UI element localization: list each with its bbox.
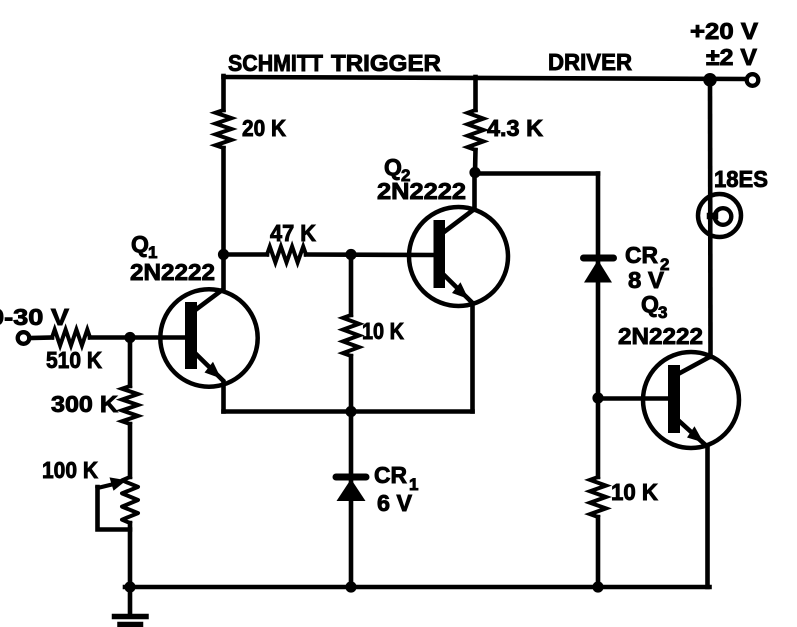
- label 10 K: [362, 318, 404, 344]
- wire bottom ground rail: [125, 585, 710, 590]
- node ground rail left junction: [124, 581, 135, 592]
- svg-text:Q: Q: [641, 291, 659, 317]
- potentiometer wiper arrow: [98, 477, 127, 490]
- ground symbol: [115, 587, 147, 625]
- svg-text:+20 V: +20 V: [690, 18, 759, 44]
- label 100 K: [42, 457, 98, 483]
- transistor Q2 circle: [409, 207, 508, 306]
- svg-text:Q: Q: [131, 231, 149, 257]
- resistor 47K: [267, 247, 306, 263]
- resistor 300K: [122, 386, 138, 424]
- label 18ES: [714, 166, 768, 192]
- label Q3 2N2222: [618, 323, 703, 349]
- svg-text:8 V: 8 V: [628, 267, 665, 293]
- wire emitter rail Q1 to Q2: [224, 409, 473, 414]
- svg-text:20 K: 20 K: [242, 115, 286, 141]
- label ±2V: [706, 44, 758, 70]
- wire 4.3K to Q2 collector node: [473, 150, 478, 174]
- svg-text:18ES: 18ES: [714, 166, 768, 192]
- transistor Q1 collector lead: [196, 255, 224, 310]
- wire 100K to ground rail: [128, 523, 133, 587]
- label Q3: [641, 291, 667, 322]
- terminal input 0-30V: [18, 332, 30, 344]
- wire wiper loop: [98, 487, 131, 530]
- wire 510K to Q1 base: [90, 335, 185, 340]
- transistor Q3 collector lead: [679, 357, 711, 374]
- wire junction to 300K: [128, 338, 133, 387]
- node Q3 base junction: [592, 392, 603, 403]
- wire top supply rail: [224, 77, 747, 79]
- label CR1: [374, 462, 418, 494]
- diode CR1 anode triangle: [337, 479, 366, 501]
- wire 300K to 100K pot: [128, 424, 133, 477]
- svg-text:10 K: 10 K: [362, 318, 404, 344]
- wire 10K to ground rail: [596, 517, 601, 587]
- wire Q2 collector node to CR2 branch: [475, 171, 598, 176]
- wire CR1 branch down: [349, 412, 354, 588]
- resistor 10K (driver base): [590, 477, 606, 517]
- svg-text:47 K: 47 K: [270, 220, 316, 246]
- label SCHMITT TRIGGER: [228, 50, 441, 76]
- transistor Q3 circle: [643, 352, 739, 448]
- wire lamp branch vertical: [708, 80, 713, 358]
- transistor Q2 collector lead: [444, 173, 475, 233]
- wire CR2 branch vertical: [596, 174, 601, 478]
- svg-text:10 K: 10 K: [611, 479, 658, 505]
- transistor Q2 emitter lead: [444, 275, 473, 412]
- svg-text:510 K: 510 K: [46, 347, 102, 373]
- lamp filament small circle: [710, 208, 731, 225]
- transistor Q3 emitter arrow: [687, 426, 704, 442]
- transistor Q1 base bar: [185, 302, 197, 369]
- label 6 V: [377, 490, 413, 516]
- resistor 20K: [216, 110, 232, 148]
- svg-text:0-30 V: 0-30 V: [0, 304, 70, 330]
- transistor Q2 base bar: [434, 220, 446, 288]
- wire 20K to Q1 collector node: [221, 148, 226, 256]
- svg-text:2N2222: 2N2222: [377, 178, 466, 204]
- wire junction down to 10K: [349, 255, 354, 316]
- wire Q3 base: [598, 396, 668, 401]
- svg-text:CR: CR: [374, 462, 407, 488]
- node Q2 collector junction: [469, 167, 480, 178]
- transistor Q1 circle: [160, 289, 257, 386]
- node input divider junction: [124, 332, 135, 343]
- svg-text:2N2222: 2N2222: [618, 323, 703, 349]
- label CR2: [625, 242, 669, 274]
- diode CR2 cathode bar: [584, 255, 614, 262]
- terminal +20V output: [747, 74, 759, 86]
- diode CR2 anode triangle: [584, 260, 612, 283]
- label Q2: [384, 154, 410, 185]
- label Q2 2N2222: [377, 178, 466, 204]
- wire input to 510K: [30, 335, 53, 340]
- label 510 K: [46, 347, 102, 373]
- label 8 V: [628, 267, 665, 293]
- transistor Q2 emitter arrow: [452, 282, 469, 299]
- node CR1 ground junction: [345, 581, 356, 592]
- svg-text:100 K: 100 K: [42, 457, 98, 483]
- node 47K-10K junction: [345, 249, 356, 260]
- svg-text:TRIGGER: TRIGGER: [331, 50, 441, 76]
- svg-text:2N2222: 2N2222: [130, 259, 215, 285]
- label 4.3 K: [487, 115, 543, 141]
- lamp 18ES circle: [698, 194, 741, 237]
- label 20 K: [242, 115, 286, 141]
- label +20V: [690, 18, 759, 44]
- transistor Q1 emitter lead: [196, 354, 224, 412]
- diode CR1 cathode bar: [336, 474, 366, 481]
- svg-text:4.3 K: 4.3 K: [487, 115, 543, 141]
- svg-text:Q: Q: [384, 154, 402, 180]
- resistor 4.3K: [468, 110, 484, 150]
- resistor 510K: [52, 330, 90, 346]
- label 47 K: [270, 220, 316, 246]
- label Q1: [131, 231, 157, 262]
- svg-text:CR: CR: [625, 242, 658, 268]
- node 10K ground junction: [592, 581, 603, 592]
- label Q1 2N2222: [130, 259, 215, 285]
- label 10 K driver: [611, 479, 658, 505]
- svg-text:±2 V: ±2 V: [706, 44, 758, 70]
- resistor 10K (Q1-Q2 emitter divider): [343, 315, 359, 356]
- svg-text:3: 3: [658, 303, 667, 322]
- svg-text:6 V: 6 V: [377, 490, 413, 516]
- transistor Q1 emitter arrow: [205, 362, 222, 379]
- wire 47K to Q2 base: [306, 252, 434, 257]
- svg-text:300 K: 300 K: [51, 391, 118, 417]
- potentiometer 100K element: [122, 477, 138, 523]
- node Q1 collector junction: [218, 249, 229, 260]
- svg-text:DRIVER: DRIVER: [548, 49, 632, 75]
- transistor Q3 base bar: [668, 365, 680, 433]
- node emitter rail junction: [345, 406, 356, 417]
- svg-text:SCHMITT: SCHMITT: [228, 50, 323, 76]
- transistor Q3 emitter lead: [679, 421, 708, 587]
- wire left rail top segment: [221, 76, 226, 110]
- label DRIVER: [548, 49, 632, 75]
- label 0-30 V: [0, 304, 70, 330]
- wire 10K to mid rail: [349, 356, 354, 412]
- wire node to 47K: [224, 252, 268, 257]
- resistor 4.3K top wire: [473, 77, 478, 110]
- label 300 K: [51, 391, 118, 417]
- node supply junction: [703, 73, 717, 87]
